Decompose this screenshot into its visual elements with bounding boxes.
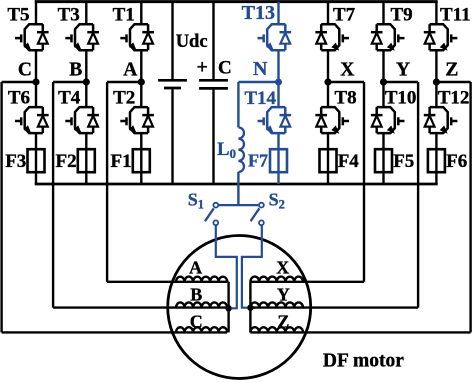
label T6 <box>8 88 30 109</box>
label N <box>253 58 268 80</box>
label B <box>69 60 82 81</box>
transistor T5 <box>15 24 49 50</box>
wire node Z to T12 <box>435 82 437 107</box>
label DF motor <box>323 351 404 372</box>
wire riser C down <box>0 82 2 332</box>
transistor T7 <box>315 24 349 51</box>
label winding C <box>190 312 203 332</box>
wire node Y to riser <box>384 81 419 83</box>
svg-text:S1: S1 <box>188 190 204 212</box>
wire L0 to switch tee <box>237 172 239 205</box>
wire T1 emitter to node A <box>140 50 142 82</box>
label Y <box>396 60 410 81</box>
svg-text:F2: F2 <box>55 151 76 172</box>
svg-text:T13: T13 <box>242 2 275 24</box>
wire T6 emitter through fuse to DC- rail <box>35 133 37 184</box>
fuse F4 <box>320 149 337 172</box>
wire S1 drop <box>216 225 237 308</box>
svg-text:X: X <box>276 258 289 278</box>
svg-text:B: B <box>190 285 202 305</box>
label A <box>123 60 137 81</box>
wire node B to T4 <box>85 82 87 107</box>
wire T4 emitter through fuse to DC- rail <box>85 133 87 184</box>
svg-text:F5: F5 <box>393 151 414 172</box>
svg-text:X: X <box>340 60 354 81</box>
label F4 <box>338 151 360 172</box>
transistor T1 <box>120 24 154 50</box>
wire T9 emitter to node Y <box>382 50 384 82</box>
svg-text:F3: F3 <box>5 151 26 172</box>
wire T7 collector leg <box>327 2 329 25</box>
wire right star bar <box>249 282 251 333</box>
wire node Y to T10 <box>382 82 384 107</box>
fuse F5 <box>375 149 392 172</box>
winding A <box>176 277 227 282</box>
wire node X to riser <box>328 81 364 83</box>
label T10 <box>385 88 417 109</box>
wire left star link <box>227 281 228 283</box>
wire T8 emitter through fuse to DC- rail <box>327 133 329 184</box>
transistor T14 <box>258 107 292 133</box>
transistor T2 <box>120 107 154 133</box>
wire bottom DC- rail <box>35 183 438 186</box>
wire capacitor bottom leg <box>212 90 214 185</box>
svg-text:C: C <box>218 58 232 79</box>
svg-text:C: C <box>190 312 203 332</box>
svg-text:DF motor: DF motor <box>323 351 404 372</box>
svg-text:F6: F6 <box>446 151 467 172</box>
label T3 <box>58 5 80 26</box>
label T5 <box>7 5 29 26</box>
wire node A to T2 <box>140 82 142 107</box>
fuse F3 <box>28 149 45 172</box>
svg-text:T9: T9 <box>391 5 413 26</box>
switch S2 throw <box>259 220 264 225</box>
capacitor C plate top <box>199 79 228 82</box>
transistor T12 <box>424 107 458 134</box>
node Z <box>433 78 440 85</box>
transistor T6 <box>15 107 49 133</box>
label F5 <box>393 151 414 172</box>
switch S2 blade <box>251 208 260 221</box>
label T9 <box>391 5 413 26</box>
svg-text:Z: Z <box>277 312 289 332</box>
node A <box>138 78 145 85</box>
label T1 <box>113 5 135 26</box>
wire node A to riser <box>107 81 141 83</box>
svg-text:T2: T2 <box>113 88 135 109</box>
svg-text:T3: T3 <box>58 5 80 26</box>
switch S2 pole <box>259 203 264 208</box>
winding B <box>176 302 227 307</box>
wire S2 drop <box>242 225 262 308</box>
node C <box>32 78 39 85</box>
wire left star bar <box>227 282 229 333</box>
label winding Z <box>277 312 289 332</box>
inductor L0 <box>238 127 244 172</box>
label S2 <box>269 190 285 212</box>
wire T5 emitter to node C <box>35 50 37 82</box>
svg-text:Y: Y <box>396 60 410 81</box>
wire top DC+ rail <box>35 0 438 3</box>
wire T13 emitter to node N <box>277 50 279 82</box>
label Z <box>445 60 458 81</box>
label X <box>340 60 354 81</box>
svg-text:T14: T14 <box>244 88 276 109</box>
label + polarity <box>197 57 208 79</box>
label T13 <box>242 2 275 24</box>
wire riser Y down <box>417 82 419 308</box>
wire battery top leg <box>171 2 173 80</box>
winding Z <box>250 327 303 332</box>
svg-text:N: N <box>253 58 268 80</box>
transistor T11 <box>424 24 458 51</box>
winding X <box>250 277 303 282</box>
svg-text:Udc: Udc <box>176 32 208 52</box>
wire L0 top leg <box>237 82 239 127</box>
svg-text:T10: T10 <box>385 88 417 109</box>
capacitor C plate bottom <box>199 87 228 90</box>
label Udc <box>176 32 208 52</box>
wire T14 emitter through fuse F7 to DC- rail <box>277 133 279 184</box>
switch S1 pole <box>213 203 218 208</box>
label T2 <box>113 88 135 109</box>
winding Y <box>250 302 303 307</box>
label T11 <box>440 5 471 26</box>
label T4 <box>58 88 81 109</box>
node X <box>324 78 331 85</box>
wire T3 collector leg <box>85 2 87 25</box>
svg-text:L0: L0 <box>217 140 236 161</box>
wire riser Z down <box>469 82 471 332</box>
label winding X <box>276 258 289 278</box>
svg-text:F4: F4 <box>338 151 360 172</box>
svg-text:S2: S2 <box>269 190 285 212</box>
battery Udc plate long <box>158 79 187 82</box>
DF motor body circle <box>168 236 311 379</box>
wire T1 collector leg <box>140 2 142 25</box>
wire riser A down <box>106 82 108 282</box>
wire T9 collector leg <box>382 2 384 25</box>
label winding A <box>189 258 202 278</box>
label T14 <box>244 88 276 109</box>
node Y <box>380 78 387 85</box>
transistor T13 <box>258 24 292 50</box>
label S1 <box>188 190 204 212</box>
wire T2 emitter through fuse to DC- rail <box>140 133 142 184</box>
wire T11 emitter to node Z <box>435 50 437 82</box>
fuse F1 <box>133 149 150 172</box>
wire switch bus <box>216 204 262 206</box>
wire T3 emitter to node B <box>85 50 87 82</box>
wire riser X to winding X <box>303 281 364 283</box>
svg-text:Z: Z <box>445 60 458 81</box>
node left star point <box>225 305 231 311</box>
node right star point <box>247 305 253 311</box>
label winding B <box>190 285 202 305</box>
wire node N to T14 <box>277 82 279 107</box>
wire battery bottom leg <box>171 89 173 184</box>
label F6 <box>446 151 467 172</box>
svg-text:F7: F7 <box>248 151 268 171</box>
wire T10 emitter through fuse to DC- rail <box>382 133 384 184</box>
wire node C to riser <box>2 81 36 83</box>
svg-text:T4: T4 <box>58 88 81 109</box>
svg-text:C: C <box>18 60 32 81</box>
wire riser Z to winding Z <box>303 331 471 333</box>
label T12 <box>438 88 470 109</box>
transistor T4 <box>65 107 99 133</box>
winding C <box>176 327 227 332</box>
svg-text:A: A <box>123 60 137 81</box>
svg-text:T7: T7 <box>333 5 356 26</box>
wire riser B down <box>52 82 54 308</box>
svg-text:A: A <box>189 258 202 278</box>
label F1 <box>110 151 131 172</box>
svg-text:T12: T12 <box>438 88 470 109</box>
label F3 <box>5 151 26 172</box>
svg-text:F1: F1 <box>110 151 131 172</box>
wire node N to L0 <box>238 81 278 83</box>
wire node Z to riser <box>436 81 470 83</box>
svg-text:Y: Y <box>277 285 290 305</box>
node N <box>275 79 282 86</box>
fuse F2 <box>78 149 95 172</box>
svg-text:T8: T8 <box>335 88 357 109</box>
transistor T8 <box>315 107 349 134</box>
label C <box>18 60 32 81</box>
label L0 <box>217 140 236 161</box>
wire riser X down <box>363 82 365 282</box>
wire riser B to winding B <box>53 306 176 308</box>
switch S1 throw <box>213 220 218 225</box>
transistor T10 <box>371 107 405 134</box>
fuse F7 <box>270 149 287 172</box>
svg-text:B: B <box>69 60 82 81</box>
wire node X to T8 <box>327 82 329 107</box>
switch S1 blade <box>205 208 214 221</box>
wire riser A to winding A <box>107 281 176 283</box>
label T7 <box>333 5 356 26</box>
transistor T9 <box>371 24 405 51</box>
wire capacitor top leg <box>212 2 214 80</box>
fuse F6 <box>428 149 445 172</box>
node B <box>83 78 90 85</box>
wire T11 collector leg <box>435 2 437 25</box>
svg-text:T1: T1 <box>113 5 135 26</box>
wire T5 collector leg <box>35 2 37 25</box>
wire node B to riser <box>53 81 86 83</box>
wire T12 emitter through fuse to DC- rail <box>435 133 437 184</box>
label T8 <box>335 88 357 109</box>
svg-text:T11: T11 <box>440 5 471 26</box>
wire T13 collector leg <box>277 2 279 25</box>
label F2 <box>55 151 76 172</box>
label F7 <box>248 151 268 171</box>
transistor T3 <box>65 24 99 50</box>
wire riser C to winding C <box>2 331 176 333</box>
battery Udc plate short <box>164 87 181 90</box>
wire riser Y to winding Y <box>303 306 418 308</box>
wire node C to T6 <box>35 82 37 107</box>
label winding Y <box>277 285 290 305</box>
svg-text:+: + <box>197 57 208 79</box>
label C capacitor <box>218 58 232 79</box>
svg-text:T5: T5 <box>7 5 29 26</box>
wire T7 emitter to node X <box>327 50 329 82</box>
svg-text:T6: T6 <box>8 88 30 109</box>
